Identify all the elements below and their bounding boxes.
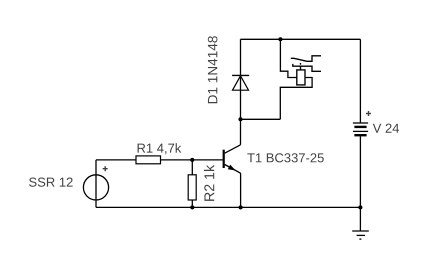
battery plus sign (366, 111, 371, 116)
wire top rail (241, 38, 361, 40)
label D1 value (208, 36, 218, 103)
resistor R2 (188, 175, 196, 200)
resistor R1 (136, 156, 161, 164)
label SSR 12 (29, 178, 73, 187)
wire emitter vertical (240, 173, 242, 207)
node emitter bottom rail (239, 205, 243, 209)
relay K1 (291, 56, 321, 85)
source SSR (83, 175, 108, 200)
wire relay coil A2 path (280, 78, 312, 120)
wire R1 to base (161, 159, 223, 161)
node R2 bottom rail (190, 205, 194, 209)
relay link dash (300, 63, 302, 65)
wire diode branch vertical (240, 39, 242, 119)
wire R2 bottom lead (191, 200, 193, 207)
wire R2 top lead (191, 160, 193, 175)
relay NO contact path (307, 56, 321, 62)
label V 24 (373, 124, 399, 133)
wire source vertical (95, 160, 97, 208)
relay contact arm (291, 58, 307, 61)
wire bottom rail (96, 206, 360, 208)
relay coil (297, 70, 305, 85)
ground (352, 207, 369, 239)
wire battery bottom lead (359, 136, 361, 207)
node top rail / relay (278, 37, 282, 41)
label R2 value (204, 165, 214, 201)
node battery bottom rail (358, 205, 362, 209)
source plus sign (103, 166, 108, 171)
diode D1 (232, 75, 249, 90)
relay actuator stub (300, 66, 302, 70)
wire node to relay bottom (241, 118, 281, 120)
node R1 / R2 / base (190, 158, 194, 162)
transistor T1 (224, 145, 241, 173)
label R1 value (138, 143, 182, 154)
wire battery top lead (359, 39, 361, 123)
wire collector vertical (240, 119, 242, 145)
node diode / collector / relay (238, 117, 242, 121)
wire relay coil A1 path (280, 39, 296, 77)
battery V24 (353, 123, 368, 135)
relay slider bar (293, 64, 321, 71)
label T1 value (247, 153, 323, 162)
wire source to R1 (96, 159, 136, 161)
